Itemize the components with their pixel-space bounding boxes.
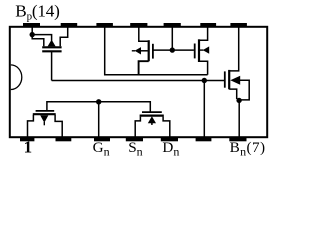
transistor M2 source wire from pin 11	[139, 26, 148, 41]
svg-text:Sn: Sn	[128, 139, 142, 159]
transistor M2 gate bar	[152, 44, 154, 59]
node C (junction dot, gate bus to pin 6)	[202, 78, 207, 83]
wire node C down to pin 6	[203, 81, 205, 138]
pin 1 stub (bottom)	[20, 137, 34, 142]
node D (junction dot, M4 drain+body to B_n)	[236, 98, 241, 103]
transistor M2 channel bar	[148, 40, 150, 61]
transistor M3 channel bar	[198, 39, 200, 62]
svg-text:Gn: Gn	[93, 139, 110, 159]
transistor M3 drain wire	[199, 61, 208, 74]
label G_n for pin 3	[93, 139, 110, 159]
label 1 for pin 1	[24, 137, 32, 156]
transistor M6 right contact wire to pin 5 (D_n)	[163, 117, 170, 137]
wire node E down to pin 3 (G_n)	[98, 102, 100, 137]
transistor M5 channel bar	[33, 113, 56, 115]
transistor M4 source wire to pin 8	[229, 26, 239, 71]
label D_n for pin 5	[162, 139, 179, 159]
node A (junction dot, B_p net)	[30, 32, 35, 37]
transistor M4 drain wire	[229, 89, 237, 99]
transistor M1 gate bar	[42, 50, 61, 52]
transistor M2 gate lead	[153, 49, 170, 51]
transistor M6 body arrow (NMOS, points up into channel)	[148, 116, 156, 125]
transistor M1 gate lead down to gate bus	[51, 51, 53, 80]
pin 14 stub (top, B_p)	[23, 23, 40, 28]
svg-text:1: 1	[24, 137, 32, 156]
transistor M5 body arrow (points down, away from channel)	[40, 115, 48, 125]
transistor M4 gate bar	[224, 71, 226, 87]
label B_p(14) for pin 14	[15, 1, 59, 22]
pin 6 stub (bottom)	[196, 137, 212, 142]
svg-text:Bn(7): Bn(7)	[230, 139, 266, 159]
svg-text:Dn: Dn	[162, 139, 179, 159]
transistor M4 channel bar	[228, 70, 230, 89]
pin 12 stub (top)	[96, 23, 113, 28]
node E (junction dot, G_n bus to pin 3)	[96, 99, 101, 104]
transistor M1 channel bar	[42, 46, 61, 48]
pin 11 stub (top)	[130, 23, 147, 28]
wire node B up to pin 10	[171, 26, 173, 48]
transistor M4 body arrow (NMOS) and body lead to node D	[230, 76, 249, 100]
pin 10 stub (top)	[164, 23, 181, 28]
transistor M2 drain wire	[139, 61, 149, 74]
transistor M2 body arrow (PMOS, points away from channel)	[132, 47, 148, 54]
transistor M5 left contact wire to pin 1	[28, 115, 34, 137]
label B_n(7) for pin 7	[230, 139, 266, 159]
pin 9 stub (top)	[200, 23, 216, 28]
package outline (14-pin DIP body)	[10, 27, 267, 137]
pin 13 stub (top)	[61, 23, 77, 28]
transistor M6 left contact wire to pin 4 (S_n)	[135, 117, 140, 137]
transistor M5 right contact wire to pin 2	[55, 115, 62, 137]
pin 4 stub (bottom, S_n)	[126, 137, 143, 142]
transistor M6 gate bar	[142, 111, 162, 113]
transistor M1 source wire	[32, 35, 44, 46]
transistor M3 body arrow (NMOS, points into channel)	[200, 46, 209, 53]
svg-text:Bp(14): Bp(14)	[15, 1, 59, 22]
pin 3 stub (bottom, G_n)	[94, 137, 110, 142]
label S_n for pin 4	[128, 139, 142, 159]
wire pin14 to node A	[31, 26, 33, 33]
pin 7 stub (bottom, B_n)	[229, 137, 246, 142]
transistor M1 drain wire to pin 13	[60, 26, 67, 46]
wire drain net to pin 12 (M2+M3 drains)	[105, 26, 208, 75]
pin 8 stub (top)	[230, 23, 247, 28]
transistor M5 gate bar	[36, 110, 55, 112]
pin 5 stub (bottom, D_n)	[161, 137, 178, 142]
transistor M3 gate lead	[175, 49, 194, 51]
pin-1 notch (D-shape on left edge)	[11, 65, 22, 90]
wire gate bus (M1 gate to M4 gate)	[52, 80, 225, 82]
pin 2 stub (bottom)	[56, 137, 72, 142]
transistor M3 source wire to pin 9	[199, 26, 208, 40]
transistor M1 body lead (PMOS, arrow out of channel)	[32, 35, 55, 47]
transistor M6 channel bar	[140, 114, 164, 116]
transistor M3 gate bar	[194, 44, 196, 59]
node B (junction dot, M2/M3 common gate)	[170, 47, 175, 52]
wire node D down to pin 7 (B_n)	[238, 100, 240, 137]
wire G_n bus (M5 gate to M6 gate)	[47, 102, 150, 112]
